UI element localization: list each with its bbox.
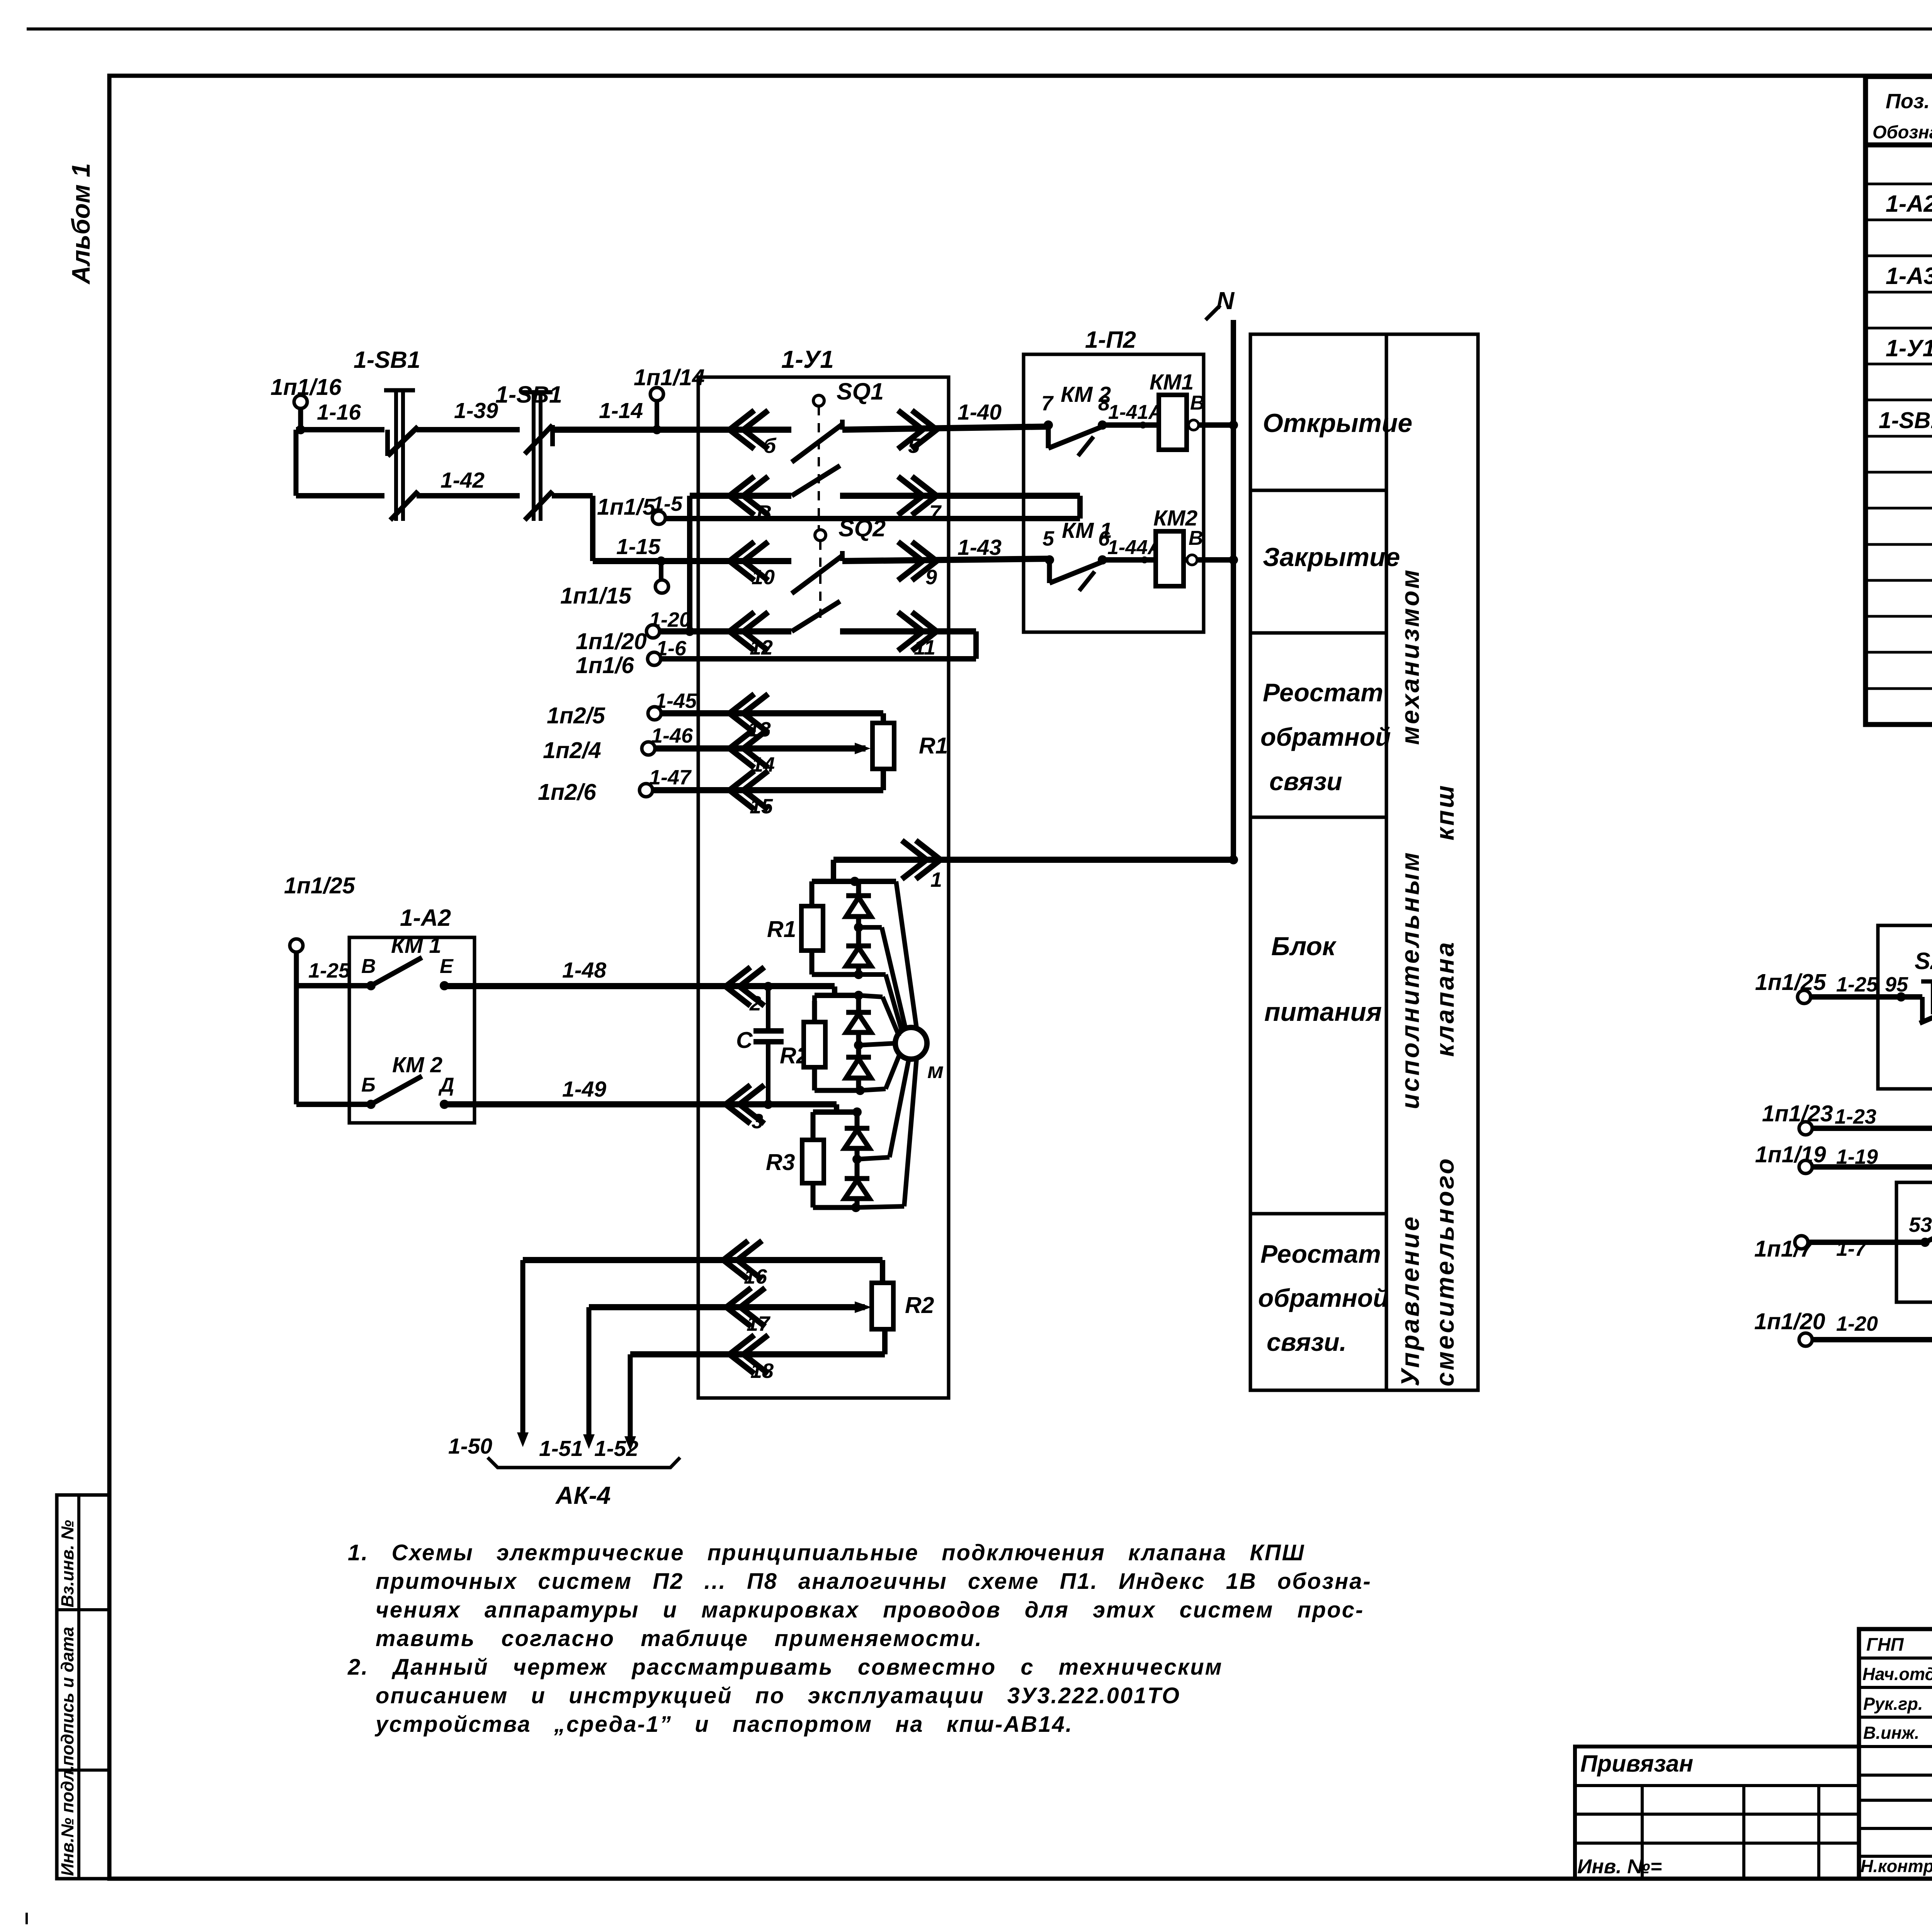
svg-text:Инв.№ подл.: Инв.№ подл. [58,1765,77,1876]
svg-text:15: 15 [750,795,773,818]
svg-text:1п1/25: 1п1/25 [1755,969,1827,995]
svg-text:1-25: 1-25 [308,959,350,982]
svg-text:R1: R1 [767,917,796,942]
svg-text:КМ1: КМ1 [1150,370,1194,395]
svg-text:Открытие: Открытие [1263,408,1412,438]
title привязан table [1575,1747,1859,1879]
resistor R1 feedback [872,723,894,769]
svg-text:Рук.гр.: Рук.гр. [1863,1694,1923,1714]
svg-text:Обознач.: Обознач. [1872,122,1932,142]
svg-text:1-SB1: 1-SB1 [354,347,420,373]
svg-text:1-49: 1-49 [562,1077,606,1102]
connector arrow 9 [898,542,937,580]
svg-text:питания: питания [1264,997,1382,1027]
svg-text:53: 53 [1909,1213,1932,1236]
svg-text:10: 10 [752,566,775,589]
svg-text:Закрытие: Закрытие [1263,543,1400,572]
component table grid [1866,77,1932,724]
diode D5 [855,1112,860,1128]
wire B row [690,493,791,499]
wire 1-52 drop [628,1354,633,1437]
svg-text:1п1/20: 1п1/20 [576,629,647,654]
left stamp table [57,1495,109,1879]
svg-text:тавить согласно таблице п: тавить согласно таблице применяемости. [376,1626,983,1651]
svg-text:16: 16 [744,1265,767,1288]
svg-text:1п1/6: 1п1/6 [576,653,634,678]
svg-text:1-16: 1-16 [317,400,361,425]
contact row 12-11 [792,601,840,631]
connector arrow 16 [723,1241,762,1279]
cable bracket AK-4 [488,1458,680,1468]
node B vertical [687,496,692,631]
svg-text:1-23: 1-23 [1835,1105,1876,1128]
svg-text:Е: Е [440,955,454,978]
block 1-A2 outline [349,937,474,1123]
svg-text:1-52: 1-52 [594,1436,638,1461]
svg-text:1. Схемы электрические принц: 1. Схемы электрические принципиальные по… [348,1540,1305,1565]
diode D6 [855,1159,860,1179]
svg-text:В: В [1189,527,1203,549]
svg-text:описанием и инструкцией по: описанием и инструкцией по эксплуатации … [376,1683,1180,1708]
svg-text:R3: R3 [766,1150,795,1175]
loop 11 return [973,631,979,659]
resistor R2 feedback [872,1283,893,1329]
connector arrow 18 [730,1335,768,1374]
svg-text:1-43: 1-43 [957,535,1002,560]
svg-text:18: 18 [750,1359,774,1383]
outer sheet border [27,27,1932,31]
svg-text:1п2/4: 1п2/4 [543,738,601,763]
wire 18 row [630,1351,885,1357]
diode D1 [856,881,861,896]
svg-text:1-А2: 1-А2 [400,905,451,931]
bridge top node [812,879,896,884]
svg-text:1-SB1: 1-SB1 [1879,408,1932,433]
svg-text:1п1/20: 1п1/20 [1754,1309,1825,1334]
contact row B-7 [792,466,840,496]
svg-text:1п1/23: 1п1/23 [1762,1101,1833,1126]
svg-text:7: 7 [929,501,942,524]
svg-text:1-А2: 1-А2 [1886,190,1932,217]
svg-text:чениях аппаратуры и маркиро: чениях аппаратуры и маркировках проводов… [376,1597,1364,1622]
svg-text:ГНП: ГНП [1866,1634,1904,1655]
svg-text:N: N [1216,287,1235,315]
svg-text:Реостат: Реостат [1263,678,1383,707]
svg-text:В: В [1190,392,1205,414]
wire node corner [294,430,299,496]
svg-text:1-39: 1-39 [454,398,498,423]
svg-text:В: В [361,955,376,978]
connector arrow 7 [898,476,937,515]
connector arrow 13 [730,694,768,733]
svg-text:1п1/25: 1п1/25 [284,873,355,898]
connector arrow 3 [726,1085,764,1124]
svg-text:В: В [757,501,772,524]
svg-text:Д: Д [438,1074,454,1096]
svg-text:Управление исполнительным ме: Управление исполнительным механизмом [1396,568,1424,1386]
svg-text:связи.: связи. [1267,1328,1347,1356]
svg-text:Привязан: Привязан [1580,1750,1693,1777]
wire 17 row [589,1304,865,1310]
svg-text:1п2/6: 1п2/6 [538,779,597,805]
svg-text:Поз.: Поз. [1886,90,1930,113]
svg-text:R2: R2 [905,1293,934,1318]
svg-text:Альбом 1: Альбом 1 [66,163,95,285]
svg-text:1: 1 [930,868,942,891]
svg-text:1-50: 1-50 [448,1434,492,1459]
svg-text:17: 17 [747,1312,771,1335]
svg-text:подпись и дата: подпись и дата [58,1627,77,1766]
motor M [895,1027,927,1059]
connector arrow 5 [898,410,937,449]
svg-text:1-47: 1-47 [649,766,692,789]
svg-text:С: С [736,1027,753,1053]
svg-text:устройства „среда-1” и пасп: устройства „среда-1” и паспортом на кпш-… [374,1712,1073,1737]
svg-text:1-40: 1-40 [957,400,1002,425]
resistor R1 bridge [810,881,815,906]
svg-text:Н.контр.: Н.контр. [1861,1856,1932,1876]
svg-text:1п1/15: 1п1/15 [560,583,632,609]
wire N feed with connector arrow 1 [831,860,836,881]
svg-text:2: 2 [749,992,761,1015]
svg-text:1-14: 1-14 [599,398,643,423]
svg-text:1-П2: 1-П2 [1085,327,1136,353]
svg-text:1-У1: 1-У1 [781,345,834,373]
svg-text:Вз.инв. №: Вз.инв. № [58,1520,77,1607]
loop 7 return [1077,496,1083,519]
connector arrow 10 [730,542,768,580]
svg-text:1п1/5: 1п1/5 [597,494,656,520]
svg-text:1-48: 1-48 [562,958,606,983]
svg-text:1-46: 1-46 [651,724,693,747]
motor fan wires [896,881,917,1028]
svg-text:Б: Б [361,1074,376,1096]
contact KM2 in 1-П2 [1044,420,1053,430]
connector arrow 6 [730,410,768,449]
connector arrow B [730,476,768,515]
svg-text:5: 5 [1043,527,1054,550]
svg-text:1п1/14: 1п1/14 [634,365,705,390]
svg-text:3: 3 [752,1110,763,1133]
connector arrow 2 [726,967,764,1006]
diode D3 [856,995,861,1012]
svg-text:12: 12 [750,636,773,659]
svg-text:КМ 2: КМ 2 [392,1053,442,1077]
svg-text:2. Данный чертеж рассматрива: 2. Данный чертеж рассматривать совместно… [347,1655,1223,1680]
svg-text:95: 95 [1885,973,1908,996]
wire 16 row [523,1257,883,1263]
svg-text:1п2/5: 1п2/5 [547,703,605,728]
svg-text:1-20: 1-20 [1836,1312,1878,1335]
svg-text:SQ1: SQ1 [837,378,884,405]
svg-text:S2: S2 [1915,948,1932,974]
legend column grid [1250,334,1478,1390]
svg-text:приточных систем П2 ... П8 а: приточных систем П2 ... П8 аналогичны сх… [376,1569,1372,1594]
diode D4 [856,1045,861,1057]
svg-text:R1: R1 [919,733,948,759]
svg-text:1-У1: 1-У1 [1886,335,1932,361]
svg-text:1-15: 1-15 [616,534,661,559]
block 1-A3 aux outline [1896,1182,1932,1302]
svg-text:Нач.отд.: Нач.отд. [1862,1664,1932,1684]
svg-text:связи: связи [1269,767,1342,796]
connector arrow 12 [730,612,768,651]
connector arrow 14 [730,729,768,768]
block 1-П2 outline [1024,354,1204,632]
svg-text:1-SB1: 1-SB1 [495,381,562,408]
wire 1-50 drop [520,1260,526,1434]
svg-text:Инв. №=: Инв. №= [1577,1855,1662,1878]
svg-text:КМ 1: КМ 1 [391,933,441,958]
svg-text:1-А3: 1-А3 [1886,263,1932,289]
svg-text:1п1/19: 1п1/19 [1755,1142,1826,1167]
svg-text:обратной: обратной [1258,1284,1388,1312]
svg-text:б: б [763,434,777,457]
connector arrow 17 [726,1288,765,1327]
svg-text:SQ2: SQ2 [838,515,886,541]
svg-text:1-42: 1-42 [440,468,485,493]
connector arrow 15 [730,771,768,810]
block 1-A3 outline [1878,925,1932,1089]
contact KM1 in 1-П2 [1045,555,1054,565]
svg-text:м: м [927,1058,944,1083]
svg-text:11: 11 [914,636,935,659]
connector arrow 11 [898,612,937,651]
svg-text:смесительного клапана кпш: смесительного клапана кпш [1430,784,1459,1386]
svg-text:5: 5 [908,434,920,457]
svg-text:Реостат: Реостат [1260,1240,1381,1268]
svg-text:1-25: 1-25 [1836,973,1878,996]
wire 1-51 drop [587,1307,592,1436]
svg-text:В.инж.: В.инж. [1863,1723,1919,1743]
svg-text:7: 7 [1041,392,1054,415]
svg-text:1-51: 1-51 [539,1436,583,1461]
svg-text:обратной: обратной [1260,723,1391,751]
svg-text:9: 9 [925,566,937,589]
svg-text:АК-4: АК-4 [555,1481,611,1509]
svg-text:Блок: Блок [1271,932,1337,961]
diode D2 [856,927,861,946]
block 1-У1 outline [698,377,949,1398]
title block signature table [1859,1629,1932,1879]
svg-text:1-41А: 1-41А [1108,401,1163,423]
